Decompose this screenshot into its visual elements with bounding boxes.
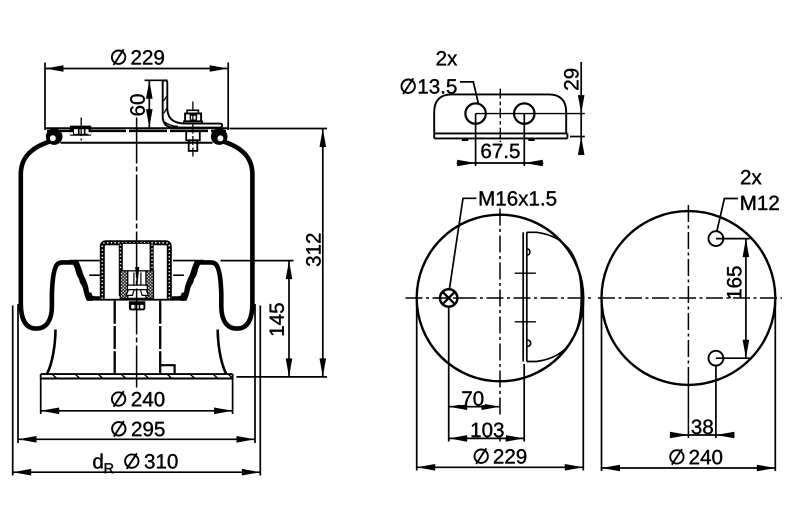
piston skirt right [218,330,226,374]
washer and flange nut [127,285,147,290]
piston cup bottom [89,293,184,299]
label 2x D13.5 with leader [437,51,446,65]
bead roll right [211,128,228,145]
bellows upper edge line [61,142,213,144]
dimension D240 bottom left view [40,379,42,415]
view1 horizontal centreline [406,297,595,299]
piston inner wall right [159,301,161,374]
dimension 312 [230,128,328,130]
bracket feet [462,138,469,141]
bracket nut [187,110,198,113]
dimension 29 [570,136,585,138]
dimension D229 top [44,63,46,131]
cup lip edge lines right [173,260,204,262]
bumper centre panel bottom edge [122,243,150,271]
bracket leg bend marks [164,96,167,101]
air fitting [70,126,92,136]
bracket hole right [514,103,534,123]
dimension D295 [17,304,19,443]
dimension 103 [523,364,525,442]
hole centre line horizontal [476,113,585,115]
piston inner wall left [114,301,116,374]
M12 hole bottom [709,351,724,366]
dimension 165 [716,238,750,240]
view2 horizontal centreline [598,297,782,299]
dimension 67.5 [475,114,477,166]
piston skirt left [47,330,55,374]
fitting centreline [80,118,82,141]
stud below plate [186,131,200,140]
bracket seen edge-on (D shape) [522,232,524,361]
bracket base plate [434,132,567,134]
label 2x M12 with leader [717,199,738,232]
dimension 145 [221,260,294,262]
hex nut below cup [129,301,145,310]
bottom view circle D240 [602,211,776,385]
rubber bumper [100,240,172,298]
dimension 60 [145,79,168,81]
dimension D229 view1 [416,301,418,471]
top view circle D229 [417,215,584,382]
bolt tip spike [135,267,139,288]
top plate [45,127,228,129]
M16 air fitting symbol [440,289,457,306]
dimension dR D310 [12,306,14,476]
bracket hole marks [515,272,536,274]
M12 hole top [709,231,724,246]
dimension 38 [715,366,717,438]
dimension D240 view2 [601,301,603,471]
view1 vertical centreline [499,209,501,418]
centreline left view [136,118,138,391]
bumper inner strips [119,245,122,297]
bead roll left [46,128,63,145]
piston bottom flange [41,373,233,375]
bumper crosshatch wedges [120,271,128,298]
label M16x1.5 with leader [449,198,476,289]
bolt centreline [192,102,194,158]
bellows right outer wall and rolling lobe [195,141,252,328]
L-bracket [163,80,223,127]
bracket feet bumps [528,249,530,255]
bellows left outer wall and rolling lobe [21,141,78,328]
bracket hole left [465,103,485,123]
bracket detail view outline [434,94,566,133]
piston step bottom right [160,365,174,374]
bracket centreline [499,89,501,145]
bellows pinch wedge right [180,260,202,301]
dimension 70 [448,307,450,442]
view2 vertical centreline [687,205,689,385]
cup lip edge lines left [70,260,101,262]
bellows pinch wedge left [71,260,93,301]
